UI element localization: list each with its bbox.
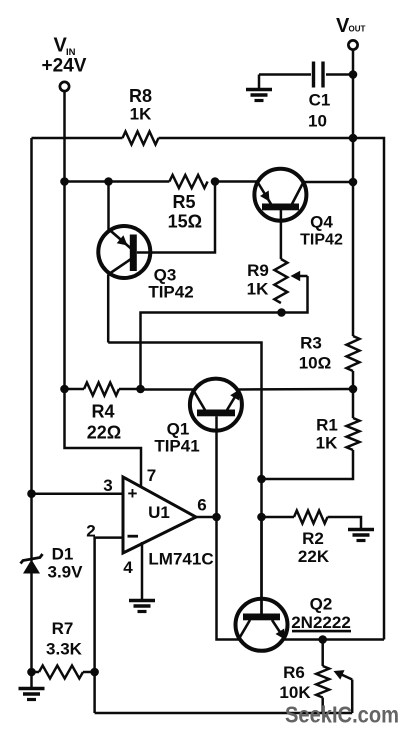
wire R6 wiper loop	[334, 670, 353, 713]
svg-text:R4: R4	[91, 402, 114, 422]
wire op-amp output	[196, 516, 217, 519]
wire Q3 emitter drop	[107, 182, 110, 232]
wire R1 bottom to line A	[262, 450, 354, 479]
terminal Vin	[42, 35, 87, 92]
wire R9 row to left	[141, 313, 282, 390]
node R2-lineA junction	[257, 513, 266, 522]
wire Q1 emitter row	[239, 388, 354, 391]
svg-text:TIP41: TIP41	[154, 437, 199, 456]
svg-text:R9: R9	[247, 261, 269, 280]
node D1-R7-ground junction	[27, 668, 36, 677]
potentiometer R9	[247, 259, 288, 303]
wire Vin to op-amp V+ path	[65, 389, 142, 488]
resistor R1	[316, 416, 360, 453]
svg-text:+24V: +24V	[42, 56, 87, 77]
node Vin-R5row junction	[60, 177, 69, 186]
node pin3 junction	[27, 489, 36, 498]
transistor Q3	[98, 226, 193, 302]
node R8-Vout junction	[349, 134, 358, 143]
ground op-amp pin4	[129, 601, 155, 612]
wire R8 row right segment	[159, 137, 354, 140]
wire pin2 riser to rail	[93, 672, 96, 713]
wire pin4 stub	[141, 542, 144, 599]
svg-text:7: 7	[147, 466, 156, 485]
svg-text:+: +	[128, 484, 138, 503]
wire Q3 base	[137, 182, 215, 253]
wire C1 left lead	[259, 73, 311, 76]
wire Q2 collector path	[217, 517, 239, 640]
resistor R8	[123, 86, 159, 145]
svg-text:R8: R8	[129, 86, 152, 106]
wire R6 top lead	[321, 640, 324, 667]
ground R7	[19, 689, 45, 700]
wire Q1 base drop	[215, 416, 218, 517]
node output junction	[212, 513, 221, 522]
wire Q2 base drop	[260, 517, 263, 614]
potentiometer R6	[279, 663, 329, 702]
wire R6 bottom lead	[321, 698, 324, 714]
svg-text:3: 3	[103, 476, 112, 495]
svg-text:R7: R7	[52, 619, 74, 638]
op-amp U1	[86, 466, 213, 577]
svg-text:R6: R6	[283, 663, 305, 682]
transistor Q2	[236, 595, 352, 651]
svg-text:C1: C1	[309, 91, 331, 110]
svg-text:1K: 1K	[247, 280, 269, 299]
ground C1	[246, 90, 272, 101]
wire R2 left lead	[262, 516, 295, 519]
zener diode D1	[21, 545, 84, 582]
node R5-Q3base-Q4emitter junction	[211, 177, 220, 186]
wire left rail	[30, 138, 33, 557]
wire R7 ground stub	[30, 672, 33, 687]
node R9 bottom junction	[277, 308, 286, 317]
svg-text:1K: 1K	[130, 105, 152, 124]
wire R8 row left segment	[32, 137, 123, 140]
wire R2 right lead	[328, 517, 362, 528]
wire R7 left lead	[32, 671, 40, 674]
svg-text:3.3K: 3.3K	[46, 640, 83, 659]
node R7-pin2-rail junction	[90, 668, 99, 677]
node R3-R1 junction	[349, 385, 358, 394]
svg-text:22Ω: 22Ω	[87, 423, 121, 443]
transistor Q4	[254, 169, 343, 249]
svg-text:22K: 22K	[298, 547, 330, 566]
resistor R3	[299, 334, 360, 373]
wire R4 left lead	[65, 388, 85, 391]
wire R7 right lead	[83, 671, 95, 674]
resistor R5	[168, 175, 208, 232]
svg-text:10: 10	[308, 112, 327, 131]
svg-text:1K: 1K	[316, 434, 338, 453]
resistor R4	[84, 383, 121, 443]
wire D1 to R7 node	[30, 574, 33, 673]
wire R3 bottom lead	[352, 371, 355, 389]
wire R1 top lead	[352, 389, 355, 418]
svg-text:10Ω: 10Ω	[299, 354, 332, 373]
wire pin2 path	[95, 538, 123, 672]
wire bottom rail	[95, 712, 353, 715]
wire Q1 collector lead	[141, 388, 194, 391]
svg-text:6: 6	[197, 496, 206, 515]
wire pin3 input	[32, 492, 124, 495]
transistor Q1	[154, 379, 242, 456]
wire R5 row left segment	[65, 180, 170, 183]
svg-text:Q4: Q4	[310, 213, 333, 232]
resistor R2	[294, 511, 330, 567]
node R6 top junction	[318, 635, 327, 644]
wire R4 right lead	[119, 388, 141, 391]
svg-text:15Ω: 15Ω	[168, 212, 202, 232]
wire Q3 collector drop	[107, 275, 110, 343]
svg-text:D1: D1	[52, 545, 74, 564]
wire top right corner to right rail	[353, 138, 384, 640]
svg-text:OUT: OUT	[349, 25, 366, 34]
svg-text:SeekIC.com: SeekIC.com	[285, 702, 399, 728]
svg-text:R3: R3	[300, 334, 322, 353]
node Q4-collector junction	[349, 178, 358, 187]
svg-text:R2: R2	[302, 529, 324, 548]
node R4-Q1 junction	[136, 385, 145, 394]
node Q3 emitter junction	[104, 177, 113, 186]
svg-text:R1: R1	[316, 416, 338, 435]
wire Q2 emitter row	[285, 638, 385, 641]
wire Q3 collector row	[108, 343, 261, 614]
terminal Vout	[336, 15, 366, 50]
svg-text:10K: 10K	[279, 683, 311, 702]
svg-text:TIP42: TIP42	[300, 232, 343, 249]
svg-text:2N2222: 2N2222	[291, 613, 351, 632]
wire R9 wiper loop	[282, 271, 308, 313]
wire C1 right lead	[326, 73, 353, 76]
svg-text:LM741C: LM741C	[148, 550, 213, 569]
wire Vin vertical rail	[63, 91, 66, 389]
wire Q4 collector to Vout rail	[304, 181, 354, 184]
watermark	[285, 702, 399, 728]
capacitor C1	[308, 62, 330, 131]
svg-text:3.9V: 3.9V	[48, 563, 84, 582]
wire R5 to Q4 emitter	[215, 180, 258, 183]
node C1 junction	[349, 70, 358, 79]
wire C1 ground stub	[258, 75, 261, 89]
svg-text:U1: U1	[148, 503, 170, 522]
svg-text:Q2: Q2	[310, 595, 333, 614]
svg-text:4: 4	[123, 558, 133, 577]
node R1-lineA junction	[257, 475, 266, 484]
svg-text:TIP42: TIP42	[148, 283, 193, 302]
node Vin-R4 junction	[60, 385, 69, 394]
ground R2	[348, 530, 374, 541]
svg-text:R5: R5	[172, 192, 195, 212]
resistor R7	[39, 619, 83, 679]
wire Q4 base drop	[280, 210, 283, 259]
wire Vout vertical	[352, 50, 355, 337]
